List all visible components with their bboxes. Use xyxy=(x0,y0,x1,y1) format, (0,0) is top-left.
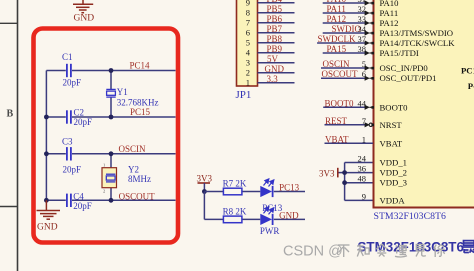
svg-text:P«: P« xyxy=(468,81,474,91)
svg-text:PC1: PC1 xyxy=(461,66,474,76)
svg-text:BOOT0: BOOT0 xyxy=(325,98,354,108)
svg-text:1: 1 xyxy=(362,134,366,144)
svg-text:OSC_OUT/PD1: OSC_OUT/PD1 xyxy=(380,73,437,83)
svg-text:PA13/JTMS/SWDIO: PA13/JTMS/SWDIO xyxy=(380,28,454,38)
svg-text:C4: C4 xyxy=(73,192,84,202)
svg-text:BOOT0: BOOT0 xyxy=(380,102,409,112)
svg-text:3: 3 xyxy=(246,58,250,68)
svg-text:9: 9 xyxy=(362,191,366,201)
svg-text:36: 36 xyxy=(358,164,367,174)
svg-text:7: 7 xyxy=(246,18,250,28)
svg-text:38: 38 xyxy=(358,44,367,54)
svg-text:PA12: PA12 xyxy=(380,18,399,28)
svg-text:VDDA: VDDA xyxy=(380,195,406,205)
svg-text:5: 5 xyxy=(362,59,366,69)
svg-text:32: 32 xyxy=(358,4,367,14)
svg-text:OSCOUT: OSCOUT xyxy=(119,191,156,201)
svg-text:VBAT: VBAT xyxy=(380,138,403,148)
svg-text:7: 7 xyxy=(362,116,366,126)
svg-text:6: 6 xyxy=(362,69,366,79)
svg-text:OSCOUT: OSCOUT xyxy=(322,69,359,79)
svg-text:3V3: 3V3 xyxy=(319,168,335,178)
svg-text:OSC_IN/PD0: OSC_IN/PD0 xyxy=(380,63,429,73)
svg-text:NRST: NRST xyxy=(380,120,403,130)
svg-text:GND: GND xyxy=(265,64,285,74)
svg-text:24: 24 xyxy=(358,154,367,164)
svg-text:1: 1 xyxy=(246,78,250,88)
svg-text:PC15: PC15 xyxy=(130,107,151,117)
svg-text:8MHz: 8MHz xyxy=(128,174,151,184)
svg-text:20pF: 20pF xyxy=(74,117,93,127)
svg-text:44: 44 xyxy=(358,98,367,108)
svg-text:37: 37 xyxy=(358,34,367,44)
svg-text:R7 2K: R7 2K xyxy=(223,179,247,189)
svg-text:2: 2 xyxy=(246,68,250,78)
svg-text:PB8: PB8 xyxy=(267,34,283,44)
svg-text:VDD_1: VDD_1 xyxy=(380,158,408,168)
svg-text:PB9: PB9 xyxy=(267,44,283,54)
svg-text:2: 2 xyxy=(103,189,105,194)
svg-text:9: 9 xyxy=(246,0,250,8)
svg-text:33: 33 xyxy=(358,14,367,24)
svg-text:REST: REST xyxy=(325,116,348,126)
svg-text:34: 34 xyxy=(358,24,367,34)
svg-text:3V3: 3V3 xyxy=(197,174,213,184)
svg-text:PC14: PC14 xyxy=(130,61,151,71)
svg-text:PA15: PA15 xyxy=(327,44,347,54)
svg-text:20pF: 20pF xyxy=(63,78,82,88)
svg-text:JP1: JP1 xyxy=(236,89,252,101)
svg-text:PB6: PB6 xyxy=(267,14,283,24)
svg-text:GND: GND xyxy=(37,223,58,233)
svg-text:SWDCLK: SWDCLK xyxy=(318,34,357,44)
svg-text:VDD_3: VDD_3 xyxy=(380,178,408,188)
svg-text:PA10: PA10 xyxy=(380,0,400,8)
svg-text:GND: GND xyxy=(74,14,95,24)
svg-text:OSCIN: OSCIN xyxy=(323,59,351,69)
svg-text:VBAT: VBAT xyxy=(325,134,349,144)
svg-text:PA11: PA11 xyxy=(380,8,399,18)
svg-text:B: B xyxy=(7,109,14,120)
svg-text:PC13: PC13 xyxy=(279,182,300,192)
svg-text:6: 6 xyxy=(246,28,250,38)
svg-text:STM32F103C8T6: STM32F103C8T6 xyxy=(374,211,447,222)
svg-text:5: 5 xyxy=(246,38,250,48)
svg-text:PB7: PB7 xyxy=(267,24,283,34)
svg-text:20pF: 20pF xyxy=(63,165,82,175)
svg-text:OSCIN: OSCIN xyxy=(119,144,147,154)
svg-text:GND: GND xyxy=(279,210,299,220)
svg-text:STM32F103C8T6: STM32F103C8T6 xyxy=(358,240,464,255)
svg-text:3.3: 3.3 xyxy=(267,74,279,84)
svg-text:Y2: Y2 xyxy=(128,165,139,175)
svg-text:C1: C1 xyxy=(62,52,73,62)
svg-text:PA11: PA11 xyxy=(327,4,346,14)
svg-text:PA15/JTDI: PA15/JTDI xyxy=(380,48,419,58)
svg-text:PWR: PWR xyxy=(260,226,280,236)
svg-text:C3: C3 xyxy=(62,137,73,147)
svg-text:PB5: PB5 xyxy=(267,4,283,14)
svg-text:PA14/JTCK/SWCLK: PA14/JTCK/SWCLK xyxy=(380,38,456,48)
svg-text:CSDN @: CSDN @ xyxy=(283,244,343,260)
svg-text:5V: 5V xyxy=(267,54,279,64)
svg-text:20pF: 20pF xyxy=(73,201,92,211)
svg-text:Y1: Y1 xyxy=(117,87,128,97)
svg-text:R8 2K: R8 2K xyxy=(223,206,247,216)
svg-text:C2: C2 xyxy=(74,108,85,118)
svg-text:PA12: PA12 xyxy=(327,14,347,24)
svg-text:48: 48 xyxy=(358,174,367,184)
svg-text:VDD_2: VDD_2 xyxy=(380,168,408,178)
svg-text:32.768KHz: 32.768KHz xyxy=(117,98,159,108)
svg-text:8: 8 xyxy=(246,8,250,18)
svg-text:1: 1 xyxy=(103,163,105,168)
